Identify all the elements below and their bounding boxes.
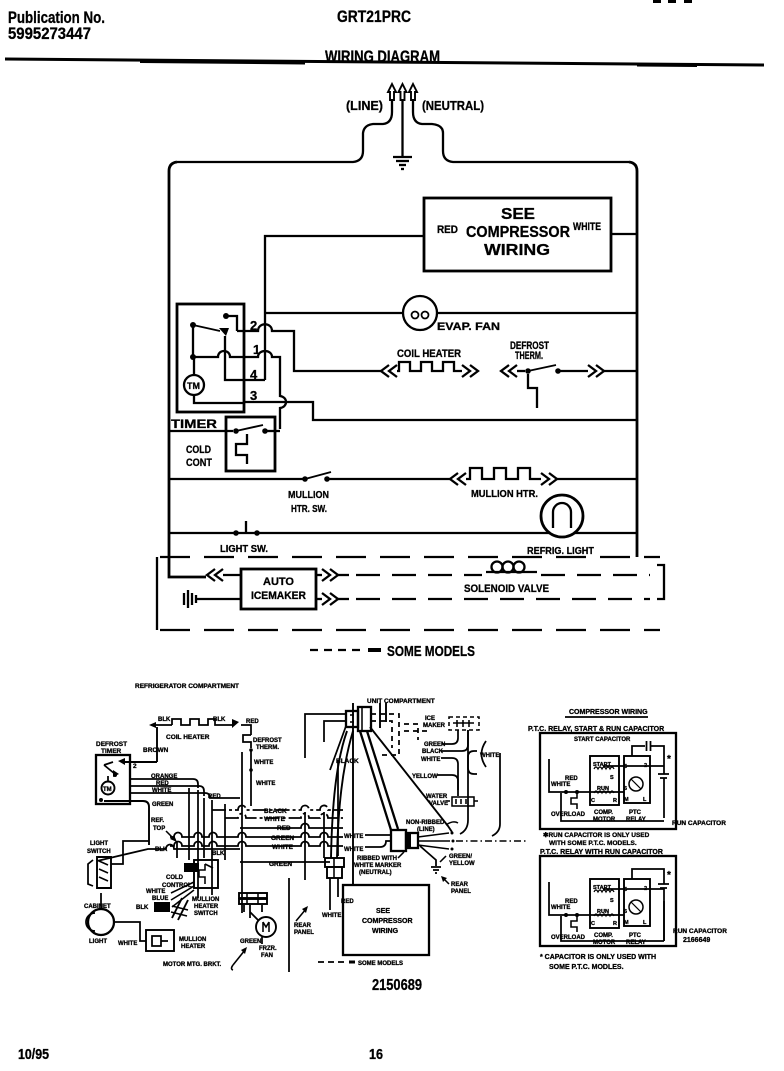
label WHITE bus — [264, 816, 286, 823]
label P.T.C. RELAY, START & RUN CAPACITOR — [528, 726, 664, 733]
svg-text:WIRING: WIRING — [372, 928, 399, 935]
wire ground lead — [401, 100, 403, 156]
label WHITE (compressor return) — [573, 221, 601, 233]
solenoid valve coil — [486, 562, 537, 573]
svg-text:COMPRESSOR: COMPRESSOR — [466, 224, 570, 241]
cold control switch — [169, 425, 280, 434]
page corner marks — [653, 0, 692, 3]
svg-text:5: 5 — [624, 887, 627, 893]
wire evap fan row — [265, 312, 637, 314]
svg-text:PTC: PTC — [629, 933, 642, 939]
label WATER VALVE — [426, 794, 448, 807]
unit connector block — [346, 707, 371, 731]
svg-text:2166649: 2166649 — [683, 937, 710, 944]
label WHITE bus 2 — [272, 844, 294, 851]
svg-text:GREEN/: GREEN/ — [449, 854, 472, 860]
icemaker output arrows top — [316, 569, 349, 581]
defrost thermostat — [501, 365, 637, 408]
timer terminal 2 arrow — [118, 758, 157, 770]
timer output wires orange red white — [130, 779, 240, 798]
svg-text:SWITCH: SWITCH — [194, 911, 218, 917]
svg-text:THERM.: THERM. — [515, 350, 543, 362]
label YELLOW — [412, 774, 438, 780]
wire white right — [460, 741, 500, 836]
title COMPRESSOR WIRING — [565, 709, 648, 717]
ice maker plug dashed box — [449, 717, 479, 730]
label REAR PANEL (left) — [294, 923, 314, 936]
svg-text:*: * — [667, 754, 671, 765]
wire yellow — [437, 775, 458, 790]
wires from top into unit connector — [380, 703, 386, 728]
svg-text:WHITE: WHITE — [551, 782, 570, 788]
bus green 2 — [240, 861, 330, 863]
footer page number — [369, 1046, 383, 1063]
svg-text:WHITE: WHITE — [118, 941, 137, 947]
ice maker wires to labels — [441, 730, 477, 796]
wire line lead — [177, 100, 392, 162]
svg-text:YELLOW: YELLOW — [449, 861, 475, 867]
svg-text:REF.: REF. — [151, 818, 164, 824]
wire row 1 — [193, 351, 286, 429]
rear panel arrow (left) — [296, 906, 308, 921]
svg-text:BRN: BRN — [186, 866, 199, 872]
svg-text:WHITE: WHITE — [344, 847, 363, 853]
svg-text:WHITE: WHITE — [551, 905, 570, 911]
mullion heater switch (lower) — [171, 898, 188, 920]
legend some models — [310, 643, 475, 660]
label TIMER — [171, 417, 217, 431]
svg-text:RELAY: RELAY — [626, 817, 646, 823]
defrost timer contacts — [99, 762, 119, 802]
svg-text:COMPRESSOR WIRING: COMPRESSOR WIRING — [569, 709, 648, 716]
label COIL HEATER — [397, 348, 461, 360]
timer box — [177, 304, 244, 412]
svg-text:SEE: SEE — [501, 206, 535, 223]
svg-text:LIGHT: LIGHT — [89, 939, 107, 945]
ground symbol — [393, 157, 412, 169]
label RED bus — [277, 825, 291, 832]
label (NEUTRAL) — [422, 98, 484, 113]
svg-text:WHITE: WHITE — [272, 844, 294, 851]
header publication number — [8, 8, 105, 43]
label LIGHT SW. — [220, 544, 268, 555]
timer terminal 2 — [250, 318, 257, 333]
panel1 start winding wire — [603, 765, 664, 767]
svg-text:3: 3 — [250, 388, 257, 403]
svg-text:6: 6 — [624, 909, 627, 915]
svg-text:MULLION: MULLION — [288, 490, 329, 501]
svg-text:16: 16 — [369, 1046, 383, 1063]
outer box left edge — [169, 162, 206, 577]
svg-text:FAN: FAN — [261, 953, 273, 959]
see compressor wiring box — [424, 198, 611, 271]
svg-text:OVERLOAD: OVERLOAD — [551, 935, 586, 941]
outer box right edge — [629, 162, 637, 557]
panel2 label OVERLOAD — [551, 935, 586, 941]
label MULLION HEATER SWITCH — [192, 897, 219, 917]
panel2 labels red white — [551, 899, 578, 911]
label GREEN 2 — [269, 861, 292, 868]
light switch row — [169, 521, 637, 536]
timer terminal 1 — [253, 342, 260, 357]
svg-text:WATER: WATER — [426, 794, 448, 800]
label MOTOR MTG. BRKT. — [163, 962, 222, 968]
cold control label (lower) — [162, 875, 192, 889]
svg-text:(LINE): (LINE) — [346, 98, 383, 113]
panel1 labels comp motor ptc relay — [593, 810, 646, 823]
svg-text:M: M — [624, 920, 629, 926]
defrost timer motor TM — [102, 782, 115, 795]
light switch component — [88, 857, 111, 888]
label MULLION HTR. SW. — [288, 490, 329, 515]
svg-text:GREEN: GREEN — [240, 939, 261, 945]
wires into connector — [305, 714, 346, 770]
svg-text:COLD: COLD — [186, 444, 211, 456]
coil heater element — [381, 362, 478, 377]
label BLK mid — [212, 851, 225, 857]
label BLK black box — [154, 902, 170, 912]
svg-text:SEE: SEE — [376, 908, 390, 915]
svg-text:WIRING: WIRING — [484, 242, 550, 259]
svg-text:2: 2 — [133, 763, 137, 770]
panel2 bottom loop — [561, 901, 664, 941]
label ORANGE — [151, 774, 177, 780]
svg-text:WITH SOME P.T.C. MODELS.: WITH SOME P.T.C. MODELS. — [549, 840, 637, 847]
svg-text:GREEN: GREEN — [269, 861, 292, 868]
svg-text:VALVE: VALVE — [429, 801, 448, 807]
svg-text:RED: RED — [246, 719, 259, 725]
part number 2166649 — [683, 937, 710, 944]
svg-text:REAR: REAR — [451, 882, 469, 888]
svg-text:C: C — [591, 921, 595, 927]
water valve dashed connector — [446, 797, 481, 806]
svg-text:BLUE: BLUE — [152, 896, 168, 902]
label GREEN fan — [240, 939, 261, 945]
legend some models (lower) — [318, 961, 403, 968]
label DEFROST THERM. (lower) — [253, 738, 282, 751]
svg-text:4: 4 — [250, 367, 258, 382]
svg-text:WHITE: WHITE — [322, 913, 341, 919]
svg-text:SOME MODELS: SOME MODELS — [358, 961, 403, 967]
label RED compressor — [341, 899, 354, 905]
label MULLION HTR. — [471, 489, 538, 500]
plug prong left (line) — [388, 84, 396, 100]
svg-text:ICEMAKER: ICEMAKER — [251, 590, 306, 602]
label BLACK bus — [264, 808, 287, 815]
panel 2 box — [540, 856, 676, 946]
svg-text:BLK: BLK — [136, 905, 149, 911]
svg-text:GREEN: GREEN — [424, 742, 445, 748]
wire row 3 — [244, 402, 637, 420]
svg-text:MOTOR: MOTOR — [593, 940, 616, 946]
svg-text:SOME P.T.C. MODLES.: SOME P.T.C. MODLES. — [549, 964, 624, 971]
part number 2150689 — [372, 977, 422, 994]
label BLACK unit — [336, 758, 359, 765]
panel2 labels comp motor ptc relay — [593, 933, 646, 946]
svg-text:HEATER: HEATER — [194, 904, 219, 910]
svg-text:TM: TM — [103, 787, 112, 793]
svg-text:REAR: REAR — [294, 923, 312, 929]
panel2 asterisk — [667, 870, 671, 881]
svg-text:BROWN: BROWN — [143, 747, 169, 754]
header rule — [5, 58, 764, 68]
wire light switch to bus — [97, 841, 240, 864]
panel1 asterisk — [667, 754, 671, 765]
note run capacitor only used — [543, 831, 650, 847]
fan green arrow — [232, 947, 248, 970]
panel1 comp motor box — [590, 756, 619, 805]
svg-text:BLACK: BLACK — [422, 749, 444, 755]
panel1 label OVERLOAD — [551, 812, 586, 818]
panel2 comp motor box — [590, 879, 619, 928]
svg-text:S: S — [610, 775, 614, 781]
label BRN black box — [184, 863, 199, 872]
svg-text:COMP.: COMP. — [594, 933, 613, 939]
refrigerator light lamp — [541, 495, 583, 537]
cold control box — [226, 417, 275, 471]
svg-text:BLK: BLK — [158, 717, 171, 723]
label REFRIGERATOR COMPARTMENT — [135, 683, 239, 690]
panel1 start capacitor — [632, 741, 664, 770]
labels GREEN BLACK WHITE ice maker — [421, 742, 445, 763]
svg-text:✱RUN CAPACITOR IS ONLY USED: ✱RUN CAPACITOR IS ONLY USED — [543, 831, 650, 839]
svg-text:10/95: 10/95 — [18, 1046, 49, 1063]
plug prong center (ground) — [399, 84, 407, 100]
see compressor wiring box (lower) — [343, 885, 429, 955]
label WHITE defrost — [254, 760, 273, 766]
cabinet light — [86, 893, 114, 935]
svg-text:*: * — [667, 870, 671, 881]
svg-text:SOLENOID VALVE: SOLENOID VALVE — [464, 583, 549, 595]
timer terminal 3 — [250, 388, 257, 403]
label COLD CONT — [186, 444, 212, 469]
vertical harness wires — [177, 752, 338, 913]
svg-text:CABINET: CABINET — [84, 904, 111, 910]
rear panel line (left) — [288, 878, 290, 972]
svg-text:MULLION: MULLION — [179, 937, 206, 943]
svg-text:GREEN: GREEN — [152, 802, 173, 808]
svg-text:COLD: COLD — [166, 875, 184, 881]
svg-text:MAKER: MAKER — [423, 723, 446, 729]
bus white 2 — [170, 842, 343, 847]
defrost timer label — [96, 741, 127, 755]
ice maker dashed leads — [371, 714, 430, 755]
non ribbed arrow — [446, 822, 458, 825]
panel2 start winding wire — [603, 869, 664, 889]
label NON-RIBBED (LINE) — [406, 820, 445, 833]
svg-text:RIBBED WITH: RIBBED WITH — [357, 856, 397, 862]
svg-text:COIL HEATER: COIL HEATER — [166, 734, 210, 741]
svg-text:SWITCH: SWITCH — [87, 849, 111, 855]
bus white dash-dot — [225, 814, 343, 819]
svg-text:REFRIG. LIGHT: REFRIG. LIGHT — [527, 546, 594, 557]
svg-text:DEFROST: DEFROST — [96, 741, 127, 748]
label RED (compressor feed) — [437, 224, 458, 236]
wire cabinet light white — [114, 922, 146, 941]
label GREEN bus — [271, 835, 294, 842]
svg-text:COMPRESSOR: COMPRESSOR — [362, 918, 413, 925]
svg-text:SOME MODELS: SOME MODELS — [387, 643, 475, 660]
panel1 bottom loop — [561, 793, 664, 821]
svg-text:WHITE: WHITE — [256, 781, 275, 787]
svg-text:NON-RIBBED: NON-RIBBED — [406, 820, 445, 826]
svg-text:AUTO: AUTO — [263, 576, 294, 588]
label REF. TOP — [151, 818, 165, 832]
svg-text:RED: RED — [277, 825, 291, 832]
auto icemaker box — [241, 569, 316, 609]
svg-text:5995273447: 5995273447 — [8, 24, 91, 43]
panel2 run capacitor symbol — [658, 879, 669, 941]
label EVAP. FAN — [437, 321, 500, 333]
icemaker water fill symbol — [184, 590, 241, 608]
ribbed arrow — [398, 852, 404, 858]
label DEFROST THERM. — [510, 340, 549, 362]
svg-text:(NEUTRAL): (NEUTRAL) — [359, 870, 392, 876]
label START CAPACITOR — [574, 737, 631, 743]
svg-text:BLK: BLK — [213, 717, 226, 723]
labels WHITE cord — [344, 834, 363, 853]
svg-text:START CAPACITOR: START CAPACITOR — [574, 737, 631, 743]
label RED bundle — [208, 794, 221, 800]
panel1 main wire and overload — [549, 759, 624, 809]
svg-text:BLACK: BLACK — [264, 808, 287, 815]
panel2 ptc relay box — [624, 879, 650, 926]
label UNIT COMPARTMENT — [367, 698, 435, 705]
svg-text:COIL HEATER: COIL HEATER — [397, 348, 461, 360]
svg-text:DEFROST: DEFROST — [253, 738, 282, 744]
panel 1 box — [540, 733, 676, 829]
label ICE MAKER — [423, 716, 446, 729]
svg-text:PTC: PTC — [629, 810, 642, 816]
svg-text:TOP: TOP — [153, 826, 165, 832]
mullion heater box (lower) — [146, 930, 174, 951]
svg-text:C: C — [591, 798, 595, 804]
svg-text:WHITE: WHITE — [254, 760, 273, 766]
defrost timer box — [96, 755, 130, 804]
svg-text:R: R — [613, 798, 617, 804]
ref top arrow — [166, 831, 177, 842]
svg-text:ICE: ICE — [425, 716, 435, 722]
timer internal contacts — [190, 313, 265, 403]
timer motor TM — [184, 375, 204, 395]
svg-text:LIGHT: LIGHT — [90, 841, 108, 847]
svg-text:REFRIGERATOR COMPARTMENT: REFRIGERATOR COMPARTMENT — [135, 683, 239, 690]
panel1 labels red white — [551, 776, 578, 788]
svg-text:ORANGE: ORANGE — [151, 774, 177, 780]
svg-text:M: M — [624, 797, 629, 803]
wire green timer — [104, 801, 173, 845]
label FRZR. FAN — [259, 946, 277, 959]
header model number — [337, 7, 411, 26]
wire brown — [143, 727, 169, 762]
wire row 2 to coil heater — [237, 324, 381, 371]
light switch label — [87, 841, 111, 855]
svg-text:RED: RED — [156, 781, 169, 787]
svg-text:MOTOR: MOTOR — [593, 817, 616, 823]
svg-text:TIMER: TIMER — [171, 417, 217, 431]
label WHITE compressor — [322, 913, 341, 919]
svg-text:WHITE: WHITE — [264, 816, 286, 823]
svg-text:2150689: 2150689 — [372, 977, 422, 994]
label (LINE) — [346, 98, 383, 113]
freezer fan motor — [250, 912, 276, 944]
harness connector stack — [239, 893, 267, 918]
evap fan motor — [403, 296, 437, 330]
svg-text:COMP.: COMP. — [594, 810, 613, 816]
svg-text:WHITE: WHITE — [421, 757, 440, 763]
power cord connector — [391, 830, 418, 851]
cold control box (lower) — [171, 860, 218, 907]
svg-text:EVAP. FAN: EVAP. FAN — [437, 321, 500, 333]
footer date — [18, 1046, 49, 1063]
svg-text:WHITE: WHITE — [344, 834, 363, 840]
label WHITE blue blk stack — [136, 889, 168, 911]
compressor overload connector — [325, 858, 344, 910]
svg-text:HTR. SW.: HTR. SW. — [291, 504, 327, 515]
wires white cord — [365, 835, 391, 847]
svg-text:GRT21PRC: GRT21PRC — [337, 7, 411, 26]
svg-text:(LINE): (LINE) — [417, 827, 435, 833]
svg-text:CONT: CONT — [186, 457, 212, 469]
svg-text:MULLION: MULLION — [192, 897, 219, 903]
panel1 ptc relay box — [624, 756, 650, 803]
svg-text:CONTROL: CONTROL — [162, 883, 192, 889]
svg-text:WHITE: WHITE — [480, 753, 499, 759]
svg-text:FRZR.: FRZR. — [259, 946, 277, 952]
svg-text:(NEUTRAL): (NEUTRAL) — [422, 98, 484, 113]
label GREEN/YELLOW — [449, 854, 475, 867]
label WHITE right — [480, 753, 499, 759]
coil heater element (lower) — [149, 719, 239, 728]
bus green — [170, 833, 343, 838]
label WHITE cabinet — [118, 941, 137, 947]
black wire diagonals — [331, 727, 452, 858]
svg-text:OVERLOAD: OVERLOAD — [551, 812, 586, 818]
svg-text:PANEL: PANEL — [294, 930, 314, 936]
bus red — [240, 824, 343, 829]
svg-text:UNIT COMPARTMENT: UNIT COMPARTMENT — [367, 698, 435, 705]
svg-text:* CAPACITOR IS ONLY USED WITH: * CAPACITOR IS ONLY USED WITH — [540, 954, 656, 961]
svg-text:TM: TM — [187, 381, 200, 391]
svg-text:YELLOW: YELLOW — [412, 774, 438, 780]
svg-text:MULLION HTR.: MULLION HTR. — [471, 489, 538, 500]
wire white return — [611, 233, 637, 235]
label SOLENOID VALVE — [464, 583, 549, 595]
svg-text:RED: RED — [208, 794, 221, 800]
label REFRIG. LIGHT — [527, 546, 594, 557]
svg-text:WHITE MARKER: WHITE MARKER — [354, 863, 402, 869]
svg-text:R: R — [613, 921, 617, 927]
power cord prongs — [418, 832, 528, 851]
label MULLION HEATER (lower) — [179, 937, 206, 950]
svg-text:RUN CAPACITOR: RUN CAPACITOR — [672, 820, 726, 827]
green yellow wire and ground — [420, 846, 446, 873]
icemaker output arrows bottom — [316, 593, 349, 605]
svg-text:RED: RED — [437, 224, 458, 236]
mullion heater switch row — [169, 472, 450, 482]
label WHITE timer — [152, 788, 171, 794]
label RED timer — [156, 781, 169, 787]
wire neutral lead — [413, 100, 629, 162]
label REAR PANEL (right) — [451, 882, 471, 895]
panel2 main wire and overload — [549, 882, 624, 932]
icemaker feed arrows — [207, 569, 241, 581]
some models dashed box — [157, 557, 664, 630]
label CABINET LIGHT — [84, 904, 111, 945]
mullion heater element — [450, 468, 637, 485]
rear panel arrow (right) — [441, 876, 449, 884]
svg-text:PANEL: PANEL — [451, 889, 471, 895]
